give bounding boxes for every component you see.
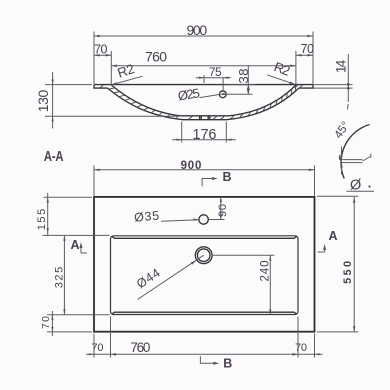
dim 70 plan left <box>47 311 110 336</box>
arrowheads <box>94 35 100 37</box>
svg-text:B: B <box>223 170 232 184</box>
svg-text:70: 70 <box>92 342 104 354</box>
basin outer profile curve <box>108 88 299 120</box>
svg-text:70: 70 <box>40 316 52 329</box>
svg-text:240: 240 <box>260 261 272 282</box>
basin left rim edge <box>94 85 108 89</box>
drain phi44 outer <box>195 247 212 264</box>
dim 75 <box>196 75 231 91</box>
svg-text:900: 900 <box>186 22 207 38</box>
svg-text:Ø35: Ø35 <box>134 209 160 225</box>
svg-text:A: A <box>71 238 80 252</box>
bottom dims 70/760/70 <box>86 317 323 358</box>
svg-text:155: 155 <box>36 209 48 231</box>
label phi44 <box>138 255 204 299</box>
basin inner bottom edge <box>112 312 297 314</box>
dim 38 <box>223 66 255 95</box>
dim 70 right <box>296 51 313 85</box>
svg-text:70: 70 <box>295 342 307 354</box>
svg-text:38: 38 <box>236 69 251 84</box>
detail thickness dim <box>342 147 371 175</box>
dim 70 left <box>94 51 111 85</box>
plan outer rect <box>94 197 315 332</box>
dim 155 <box>44 193 93 236</box>
basin right rim edge <box>299 85 313 89</box>
drain recess in section <box>200 116 210 120</box>
svg-text:70: 70 <box>301 42 314 56</box>
faucet hole phi35 <box>199 215 208 224</box>
label phi35 <box>161 220 199 222</box>
basin inner top edge <box>112 236 297 238</box>
svg-text:B: B <box>223 356 232 370</box>
marker B top <box>202 179 214 187</box>
detail arc <box>341 125 370 179</box>
dim 900 plan <box>94 166 315 197</box>
svg-text:130: 130 <box>35 89 51 112</box>
dim 130 <box>45 72 179 129</box>
basin inner profile curve <box>111 85 296 116</box>
dim 176 <box>172 122 236 143</box>
basin top back edge <box>94 84 313 86</box>
label phi25 <box>200 95 220 98</box>
svg-text:900: 900 <box>181 160 202 172</box>
svg-text:14: 14 <box>332 60 348 74</box>
label R2 left <box>111 76 142 85</box>
detail tick top <box>347 104 350 110</box>
dim 550 <box>317 196 358 332</box>
svg-text:760: 760 <box>130 340 150 355</box>
svg-text:325: 325 <box>54 267 66 289</box>
dim 14 right <box>314 54 353 102</box>
dim 900 top <box>94 32 313 85</box>
dim 325 <box>43 235 110 314</box>
dim 760 <box>111 65 296 67</box>
dim 240 <box>212 255 274 314</box>
marker B bottom <box>200 356 215 363</box>
svg-text:A: A <box>329 229 338 243</box>
svg-text:70: 70 <box>94 42 107 56</box>
svg-text:75: 75 <box>209 65 222 79</box>
svg-text:760: 760 <box>145 49 167 65</box>
svg-text:90: 90 <box>217 204 229 217</box>
plan basin rect <box>111 236 299 315</box>
drain inner circle <box>197 249 210 262</box>
svg-text:550: 550 <box>342 261 354 284</box>
svg-text:176: 176 <box>193 127 217 143</box>
svg-text:A-A: A-A <box>44 148 64 165</box>
wall hatch ticks <box>100 85 303 120</box>
label R2 right <box>267 75 295 85</box>
overflow hole phi25 <box>219 91 226 98</box>
dim 90 <box>209 197 225 220</box>
